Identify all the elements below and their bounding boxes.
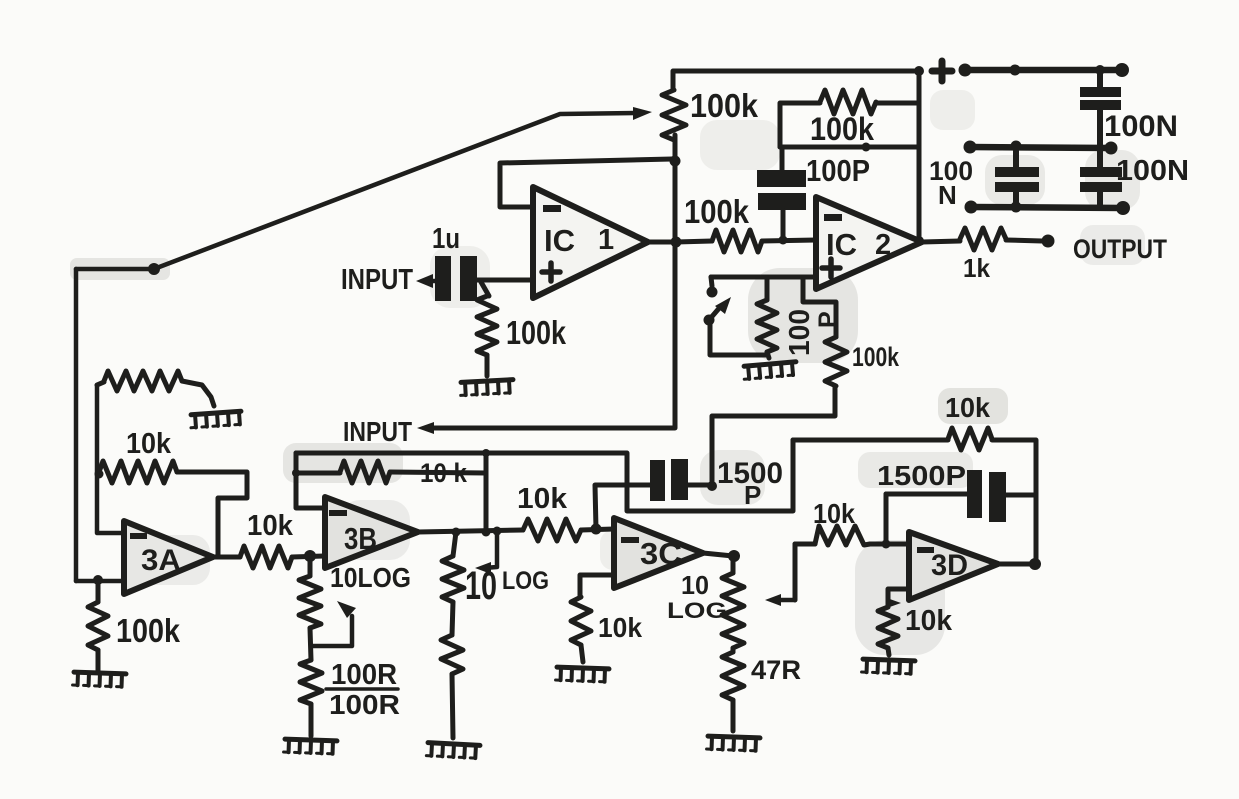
- resistor 10k (3B feedback): [296, 461, 486, 483]
- wire main vertical: [434, 135, 675, 428]
- svg-text:N: N: [938, 180, 957, 210]
- op-amp 3A: [124, 521, 213, 594]
- wire top loop: [673, 71, 919, 242]
- label 10LOG (pot below 3B): [330, 562, 411, 593]
- resistor 10k (3A out to 3B): [240, 546, 324, 568]
- op-amp IC1: [533, 187, 648, 298]
- svg-text:10k: 10k: [945, 392, 990, 423]
- svg-text:100N: 100N: [1116, 155, 1189, 187]
- wire input arrow: [416, 274, 436, 288]
- pot 100R upper: [299, 556, 321, 660]
- svg-text:INPUT: INPUT: [343, 416, 412, 447]
- svg-text:10: 10: [465, 564, 497, 608]
- svg-text:100k: 100k: [116, 612, 181, 649]
- svg-text:100: 100: [784, 309, 816, 356]
- label 100N (right): [1116, 155, 1189, 187]
- svg-text:LOG: LOG: [502, 567, 549, 595]
- label INPUT 2: [343, 416, 412, 447]
- wire 3C non-inverting: [580, 575, 614, 597]
- label 10k (3D feedback): [945, 392, 990, 423]
- node 3B fb resistor left: [292, 469, 300, 477]
- svg-text:10 k: 10 k: [420, 458, 468, 488]
- capacitor 100N (mid-left): [995, 147, 1039, 207]
- node pot2 wiper tap: [493, 527, 502, 536]
- label 1500 P: [717, 457, 783, 510]
- label 100k (loop): [690, 87, 759, 124]
- capacitor 1500p plates: [650, 459, 688, 501]
- resistor 10k (3A feedback): [99, 461, 247, 556]
- wire IC2 fb top: [780, 103, 919, 147]
- node 3C out: [728, 550, 740, 562]
- svg-text:3B: 3B: [344, 521, 377, 556]
- ground (trimmer 100p): [743, 362, 797, 380]
- svg-text:1u: 1u: [432, 223, 460, 255]
- wire 3B output: [418, 530, 523, 532]
- svg-text:P: P: [744, 480, 761, 510]
- svg-text:100k: 100k: [506, 314, 567, 351]
- wire pot4 wiper to 3D: [765, 544, 795, 606]
- svg-text:2: 2: [875, 229, 891, 261]
- node 3C inverting: [591, 524, 602, 535]
- pot 10LOG (3B out) body: [441, 532, 464, 738]
- svg-text:10k: 10k: [598, 612, 642, 643]
- node output terminal: [1042, 235, 1055, 248]
- wire 3D output: [998, 558, 1041, 570]
- svg-text:10k: 10k: [517, 483, 568, 515]
- svg-text:100P: 100P: [806, 153, 870, 188]
- resistor 10k (3D input): [795, 526, 909, 545]
- svg-text:1500P: 1500P: [877, 460, 966, 491]
- node 3A + input: [93, 575, 103, 585]
- node 3D inverting: [882, 540, 891, 549]
- switch arm: [709, 297, 731, 320]
- svg-text:OUTPUT: OUTPUT: [1073, 234, 1167, 264]
- resistor 100k (3A + to ground): [88, 581, 108, 671]
- wire 100P stubs: [782, 147, 783, 239]
- wire left rail top horizontal: [76, 267, 153, 272]
- resistor 1k: [922, 228, 1042, 250]
- svg-text:P: P: [814, 311, 842, 328]
- wire supply mid: [964, 141, 1118, 155]
- switch pivot: [704, 315, 715, 326]
- wire 3B inverting input: [296, 453, 324, 508]
- node 100P bottom: [779, 236, 788, 245]
- capacitor 100N (top): [1080, 70, 1121, 145]
- node left rail / diagonal junction: [148, 263, 160, 275]
- node pot2 tap: [452, 528, 461, 537]
- wire trimmer top: [711, 275, 816, 280]
- svg-text:10k: 10k: [905, 605, 953, 637]
- wire left rail vertical: [74, 269, 79, 581]
- svg-text:10k: 10k: [126, 428, 172, 460]
- resistor 10k (3D + to gnd): [878, 607, 898, 655]
- wire IC2 fb mid: [780, 145, 919, 150]
- label 100 p (rotated): [784, 309, 842, 356]
- label 10 LOG (3C pot): [667, 570, 727, 623]
- label 1500P (3D): [877, 460, 966, 491]
- wire 3A non-inverting input: [76, 579, 124, 584]
- svg-text:10k: 10k: [247, 510, 294, 542]
- wire 3C output: [703, 553, 733, 556]
- capacitor 1u plates: [435, 256, 477, 301]
- svg-text:10LOG: 10LOG: [330, 562, 411, 593]
- label 10k (3B to 3C): [517, 483, 568, 515]
- svg-text:3A: 3A: [141, 544, 181, 577]
- node IC1 fb junction: [670, 156, 681, 167]
- symbol IC1 plus: [542, 263, 560, 281]
- wire 3A inverting vertical: [97, 385, 124, 533]
- pot 100R lower: [300, 660, 322, 736]
- svg-text:1: 1: [598, 224, 614, 256]
- resistor 100k (IC2 + network): [803, 279, 847, 386]
- svg-text:100k: 100k: [852, 342, 900, 372]
- resistor 10k (3B to 3C): [523, 519, 614, 541]
- ground (3D bias): [862, 659, 915, 674]
- ground (IC1 bias): [460, 380, 514, 396]
- wire input2 arrow: [417, 422, 434, 434]
- svg-text:1k: 1k: [963, 253, 991, 283]
- svg-text:IC: IC: [544, 223, 575, 258]
- node 3A feedback tap: [95, 470, 104, 479]
- trimmer 100p body: [757, 277, 777, 358]
- wire 1500P right (3D): [1006, 493, 1036, 498]
- op-amp 3C: [614, 518, 703, 588]
- label 100R/100R: [326, 659, 400, 720]
- resistor 10k (3D feedback): [948, 428, 992, 450]
- wire diagonal to top 100k: [154, 107, 652, 269]
- wire 3C feedback vertical: [595, 485, 650, 529]
- label 10k (3B feedback): [420, 458, 468, 488]
- wire switch bottom: [710, 322, 766, 355]
- svg-text:10k: 10k: [813, 498, 855, 529]
- wire 3B feedback vertical: [484, 452, 489, 532]
- svg-text:INPUT: INPUT: [341, 264, 413, 296]
- ground (3C bias): [556, 667, 609, 682]
- wire cap to IC1: [477, 278, 533, 283]
- resistor 100k (loop): [662, 90, 686, 140]
- label 10k (3C bias): [598, 612, 642, 643]
- resistor (3A inverting to ground, top): [97, 371, 214, 406]
- pot 10LOG (3B out) wiper: [475, 531, 497, 574]
- switch contact: [707, 277, 718, 298]
- label 10k (3D input): [813, 498, 855, 529]
- resistor 100k (IC1 to IC2): [676, 230, 816, 252]
- svg-text:100k: 100k: [690, 87, 759, 124]
- node IC1 output: [671, 237, 682, 248]
- label 100k (IC2 + network): [852, 342, 900, 372]
- wire supply bottom: [965, 201, 1131, 216]
- ground (47R): [707, 736, 760, 751]
- capacitor 1500P plates (3D): [967, 470, 1006, 522]
- node IC2 output: [914, 236, 924, 246]
- op-amp IC2: [816, 197, 922, 289]
- capacitor 100N (mid-right): [1080, 148, 1122, 207]
- ground (100R pot): [284, 739, 337, 754]
- wire 1500p right: [688, 386, 835, 485]
- label 100 N (left): [929, 156, 973, 210]
- svg-text:100R: 100R: [329, 689, 400, 720]
- label 10k (3A out): [247, 510, 294, 542]
- node 3B feedback bottom: [482, 528, 491, 537]
- label 10k (3A feedback): [126, 428, 172, 460]
- label 1u: [432, 223, 460, 255]
- ground (pot 3B out): [426, 743, 480, 759]
- label 100P: [806, 153, 870, 188]
- resistor 100k (IC1 bias): [477, 282, 497, 376]
- node supply cap1: [1095, 65, 1105, 75]
- wire 3D fb top: [793, 440, 1036, 564]
- wire summing line (3B minus to 3D loop): [296, 440, 793, 511]
- label 100k (3A bias): [116, 612, 181, 649]
- wire IC1 out: [648, 240, 676, 245]
- svg-text:10: 10: [681, 570, 709, 600]
- label 10 LOG (3B out pot): [465, 564, 549, 608]
- ground (3A bias): [73, 672, 126, 687]
- svg-text:LOG: LOG: [667, 598, 727, 623]
- node 3B feedback top: [482, 449, 490, 457]
- label 10k (3D bias): [905, 605, 953, 637]
- node IC2 fb mid: [862, 143, 871, 152]
- pot 100R wiper arrow: [311, 601, 356, 646]
- symbol IC2 plus: [822, 259, 840, 277]
- svg-text:100R: 100R: [331, 659, 397, 691]
- svg-text:100N: 100N: [1104, 110, 1178, 143]
- wire 3D non-inverting: [887, 589, 909, 608]
- wire IC1 inverting loop: [500, 159, 672, 207]
- pot 10LOG (3C out) body: [722, 556, 744, 652]
- wire 3A output: [213, 555, 240, 560]
- ground (3A top resistor): [190, 411, 242, 428]
- svg-text:100k: 100k: [810, 111, 874, 147]
- resistor 47R: [722, 652, 744, 731]
- op-amp 3D: [909, 532, 998, 600]
- label 100N (top): [1104, 110, 1178, 143]
- label 100k (IC2 feedback): [810, 111, 874, 147]
- label 47R: [751, 655, 801, 685]
- op-amp 3B: [325, 497, 418, 568]
- capacitor 100P plates: [757, 170, 806, 210]
- label INPUT: [341, 264, 413, 296]
- node top loop right: [914, 66, 924, 76]
- label 1k: [963, 253, 991, 283]
- resistor 10k (3C + to gnd): [571, 597, 591, 662]
- svg-text:47R: 47R: [751, 655, 801, 685]
- wire 1500P left (3D): [886, 494, 967, 544]
- svg-text:3D: 3D: [931, 549, 968, 582]
- symbol plus supply: [932, 61, 952, 81]
- svg-text:3C: 3C: [640, 536, 682, 571]
- resistor 100k (IC2 feedback): [820, 90, 876, 114]
- label OUTPUT: [1073, 234, 1167, 264]
- node 1500p corner: [707, 481, 717, 491]
- wire supply top: [959, 63, 1130, 77]
- label 100k (IC1 bias): [506, 314, 567, 351]
- node 3A-3B junction: [304, 550, 316, 562]
- label 100k (IC1-IC2): [684, 193, 750, 230]
- svg-text:100k: 100k: [684, 193, 750, 230]
